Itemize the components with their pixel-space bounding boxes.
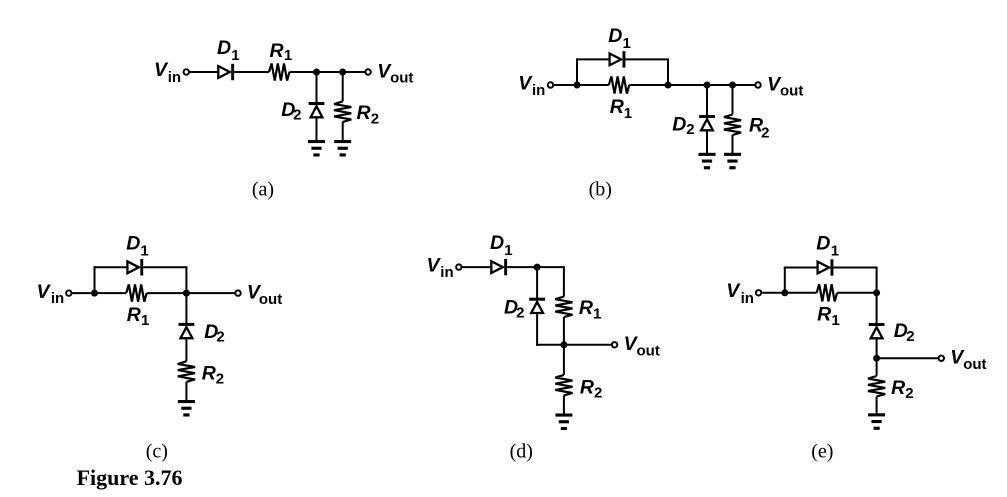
wire riser R1 (d) — [563, 266, 565, 297]
wire bottom D2 to node (d) — [536, 344, 564, 346]
ground (e) — [868, 413, 885, 416]
junction node right (b) — [665, 82, 672, 89]
wire R2 to ground (d) — [563, 395, 565, 414]
wire Vin to D1 (a) — [189, 71, 217, 73]
wire node to R2 (a) — [342, 72, 344, 101]
resistor R2 (e) — [868, 376, 885, 397]
junction node mid (e) — [873, 355, 880, 362]
svg-text:1: 1 — [284, 47, 292, 64]
resistor R1 (d) — [555, 297, 572, 318]
svg-text:Figure 3.76: Figure 3.76 — [77, 465, 183, 490]
diode D1 (e) — [818, 262, 830, 274]
diode D2 (c) — [179, 323, 195, 326]
wire R1 to Vout (b) — [629, 84, 755, 86]
wire Vin to R1 (b) — [554, 84, 609, 86]
svg-text:1: 1 — [504, 242, 512, 259]
wire D2 to bottom (d) — [536, 314, 538, 346]
ground below D2 (b) — [699, 153, 716, 156]
diode D2 (e) — [869, 323, 885, 326]
output terminal Vout (e) — [939, 356, 944, 361]
svg-text:1: 1 — [831, 243, 839, 260]
diode D1 (a) — [218, 66, 230, 78]
input terminal Vin (a) — [184, 69, 189, 74]
svg-text:2: 2 — [516, 305, 524, 322]
diode D2 (a) — [309, 102, 325, 105]
svg-text:in: in — [168, 69, 181, 86]
ground below D2 (a) — [308, 140, 325, 143]
junction node left (c) — [91, 290, 98, 297]
wire D2 to mid node (e) — [876, 339, 878, 358]
svg-text:(b): (b) — [589, 179, 612, 201]
wire riser right (e) — [876, 267, 878, 293]
svg-text:2: 2 — [293, 107, 301, 124]
svg-text:(e): (e) — [811, 441, 833, 463]
svg-text:out: out — [963, 356, 986, 373]
output terminal Vout (c) — [235, 290, 240, 295]
svg-text:1: 1 — [831, 312, 839, 329]
ground below R2 (a) — [334, 140, 351, 143]
junction node R2 (b) — [729, 82, 736, 89]
svg-text:1: 1 — [231, 47, 239, 64]
svg-text:2: 2 — [906, 328, 914, 345]
wire Vin to R1 (c) — [72, 292, 126, 294]
wire riser left (c) — [94, 266, 96, 293]
junction node D2 (b) — [704, 82, 711, 89]
output terminal Vout (b) — [755, 82, 760, 87]
junction node right (c) — [183, 290, 190, 297]
wire D2 to R2 (c) — [185, 339, 187, 361]
svg-text:R: R — [202, 363, 216, 385]
svg-text:2: 2 — [216, 329, 224, 346]
wire D2 to ground (a) — [316, 118, 318, 140]
junction node top (d) — [534, 264, 541, 271]
wire R1 to Vout (c) — [147, 292, 236, 294]
svg-text:1: 1 — [623, 35, 631, 52]
svg-text:out: out — [780, 83, 803, 100]
wire node to D2 (c) — [185, 293, 187, 323]
input terminal Vin (d) — [456, 264, 461, 269]
wire R2 to ground (b) — [732, 135, 734, 153]
wire top left to D1 (e) — [784, 267, 817, 269]
input terminal Vin (b) — [548, 82, 553, 87]
svg-text:(d): (d) — [510, 441, 533, 463]
wire top left to D1 (b) — [576, 58, 609, 60]
wire node to Vout (d) — [564, 344, 612, 346]
svg-text:2: 2 — [594, 384, 602, 401]
svg-text:R: R — [891, 377, 905, 399]
svg-text:in: in — [51, 290, 64, 307]
svg-text:R: R — [580, 376, 594, 398]
diode D2 (d) — [529, 298, 545, 301]
wire riser right (c) — [185, 266, 187, 293]
wire Vin to R1 (e) — [762, 292, 817, 294]
svg-text:R: R — [817, 304, 831, 326]
wire riser left (b) — [576, 58, 578, 85]
svg-text:D: D — [816, 233, 830, 255]
svg-text:(a): (a) — [252, 179, 274, 201]
wire R1 to node (e) — [837, 292, 877, 294]
svg-text:D: D — [490, 232, 504, 254]
svg-text:V: V — [726, 280, 741, 302]
wire Vin to D1 (d) — [462, 266, 490, 268]
wire D1 to top right (b) — [625, 58, 669, 60]
resistor R2 (c) — [178, 361, 195, 382]
svg-text:in: in — [440, 264, 453, 281]
svg-text:2: 2 — [371, 111, 379, 128]
svg-text:D: D — [608, 25, 622, 47]
svg-text:1: 1 — [140, 242, 148, 259]
resistor R1 (b) — [609, 76, 629, 93]
wire node to D2 (b) — [706, 85, 708, 115]
wire node to D2 (e) — [876, 293, 878, 323]
resistor R2 (b) — [724, 115, 741, 136]
resistor R1 (a) — [269, 63, 290, 80]
svg-text:D: D — [217, 37, 231, 59]
svg-text:D: D — [126, 232, 140, 254]
wire R2 to ground (c) — [185, 382, 187, 401]
svg-text:R: R — [270, 40, 284, 62]
svg-text:V: V — [37, 281, 52, 303]
svg-text:(c): (c) — [146, 441, 168, 463]
wire R2 to ground (a) — [342, 122, 344, 141]
resistor R1 (e) — [817, 284, 837, 301]
svg-text:in: in — [741, 290, 754, 307]
wire node to D2 (d) — [536, 267, 538, 298]
wire top left to D1 (c) — [94, 266, 127, 268]
svg-text:2: 2 — [216, 371, 224, 388]
diode D1 (d) — [491, 261, 503, 273]
output terminal Vout (d) — [612, 342, 617, 347]
diode D1 (b) — [610, 54, 622, 66]
junction node R2 (a) — [339, 69, 346, 76]
svg-text:R: R — [357, 102, 371, 124]
wire D1 to R1 (a) — [234, 71, 269, 73]
output terminal Vout (a) — [365, 69, 370, 74]
ground below R2 (b) — [724, 153, 741, 156]
svg-text:D: D — [672, 114, 686, 136]
svg-text:V: V — [518, 72, 533, 94]
svg-text:R: R — [579, 297, 593, 319]
wire node to R2 (d) — [563, 345, 565, 375]
svg-text:R: R — [127, 304, 141, 326]
junction node D2 (a) — [313, 69, 320, 76]
wire R2 to ground (e) — [876, 397, 878, 414]
wire node to D2 (a) — [316, 72, 318, 102]
svg-text:1: 1 — [593, 306, 601, 323]
junction node left (e) — [781, 289, 788, 296]
wire D1 to corner (d) — [507, 266, 565, 268]
wire node to R2 (b) — [732, 85, 734, 115]
wire R1 to Vout (a) — [290, 71, 366, 73]
ground (d) — [555, 414, 572, 417]
wire riser right (b) — [667, 58, 669, 85]
wire D1 to top right (e) — [833, 267, 877, 269]
resistor R1 (c) — [126, 285, 147, 302]
wire node to Vout (e) — [877, 357, 939, 359]
input terminal Vin (c) — [66, 290, 71, 295]
svg-text:2: 2 — [686, 121, 694, 138]
ground (c) — [178, 400, 195, 403]
diode D2 (b) — [699, 115, 715, 118]
svg-text:1: 1 — [141, 312, 149, 329]
junction node bottom (d) — [560, 341, 567, 348]
input terminal Vin (e) — [756, 290, 761, 295]
svg-text:out: out — [259, 291, 282, 308]
wire riser left (e) — [784, 267, 786, 293]
wire D1 to top right (c) — [143, 266, 187, 268]
svg-text:2: 2 — [905, 385, 913, 402]
svg-text:R: R — [610, 96, 624, 118]
wire node to R2 (e) — [876, 358, 878, 376]
resistor R2 (a) — [334, 101, 351, 121]
svg-text:2: 2 — [761, 124, 769, 141]
svg-text:out: out — [637, 342, 660, 359]
wire R1 to bottom node (d) — [563, 317, 565, 345]
resistor R2 (d) — [555, 375, 572, 396]
wire D2 to ground (b) — [706, 131, 708, 153]
diode D1 (c) — [127, 261, 138, 273]
svg-text:in: in — [532, 82, 545, 99]
svg-text:1: 1 — [624, 105, 632, 122]
junction node right (e) — [873, 289, 880, 296]
junction node left (b) — [574, 82, 581, 89]
svg-text:V: V — [427, 254, 442, 276]
svg-text:out: out — [390, 70, 413, 87]
